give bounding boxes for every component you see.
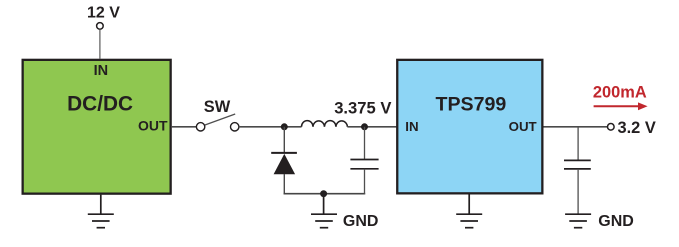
svg-text:TPS799: TPS799 [435,93,506,115]
wire 12V terminal to DC/DC IN [99,29,101,58]
node 3.2V terminal [608,124,615,131]
svg-text:GND: GND [343,213,379,230]
junction node C (ground tap) [320,190,327,197]
svg-text:DC/DC: DC/DC [67,93,133,116]
svg-text:200mA: 200mA [593,83,647,101]
capacitor C1 [350,127,378,195]
bottom rail wire (diode to C1) [284,193,366,195]
svg-text:GND: GND [598,213,634,230]
junction node A (diode tap) [281,123,288,130]
wire DC/DC OUT to switch [172,126,197,128]
svg-text:IN: IN [405,119,418,134]
svg-text:OUT: OUT [138,118,168,134]
svg-text:12 V: 12 V [87,4,120,21]
junction node B (capacitor tap) [361,123,368,130]
wire inductor to TPS799 IN [347,126,396,128]
ground (TPS799) [456,194,482,227]
ground (mid rail) [311,194,337,228]
ground (DC/DC) [88,195,114,228]
svg-text:IN: IN [94,63,109,79]
svg-text:3.375 V: 3.375 V [334,98,391,117]
wire switch to inductor [239,126,302,128]
svg-text:OUT: OUT [509,119,537,134]
capacitor C2 [564,127,591,214]
wire TPS799 OUT to output terminal [544,126,608,128]
ground (output) [565,214,591,228]
svg-text:3.2 V: 3.2 V [618,119,656,137]
DC/DC converter block U1 [23,60,171,194]
TPS799 regulator block U2 [397,60,542,194]
diode D1 (catch diode, cathode up) [271,153,297,174]
wire diode anode to bottom rail [283,174,285,194]
svg-text:SW: SW [204,98,231,116]
current arrow [594,102,648,110]
wire node A to diode cathode [283,127,285,153]
inductor L1 [302,121,348,127]
switch SW [196,114,238,131]
node 12V terminal [97,23,104,30]
